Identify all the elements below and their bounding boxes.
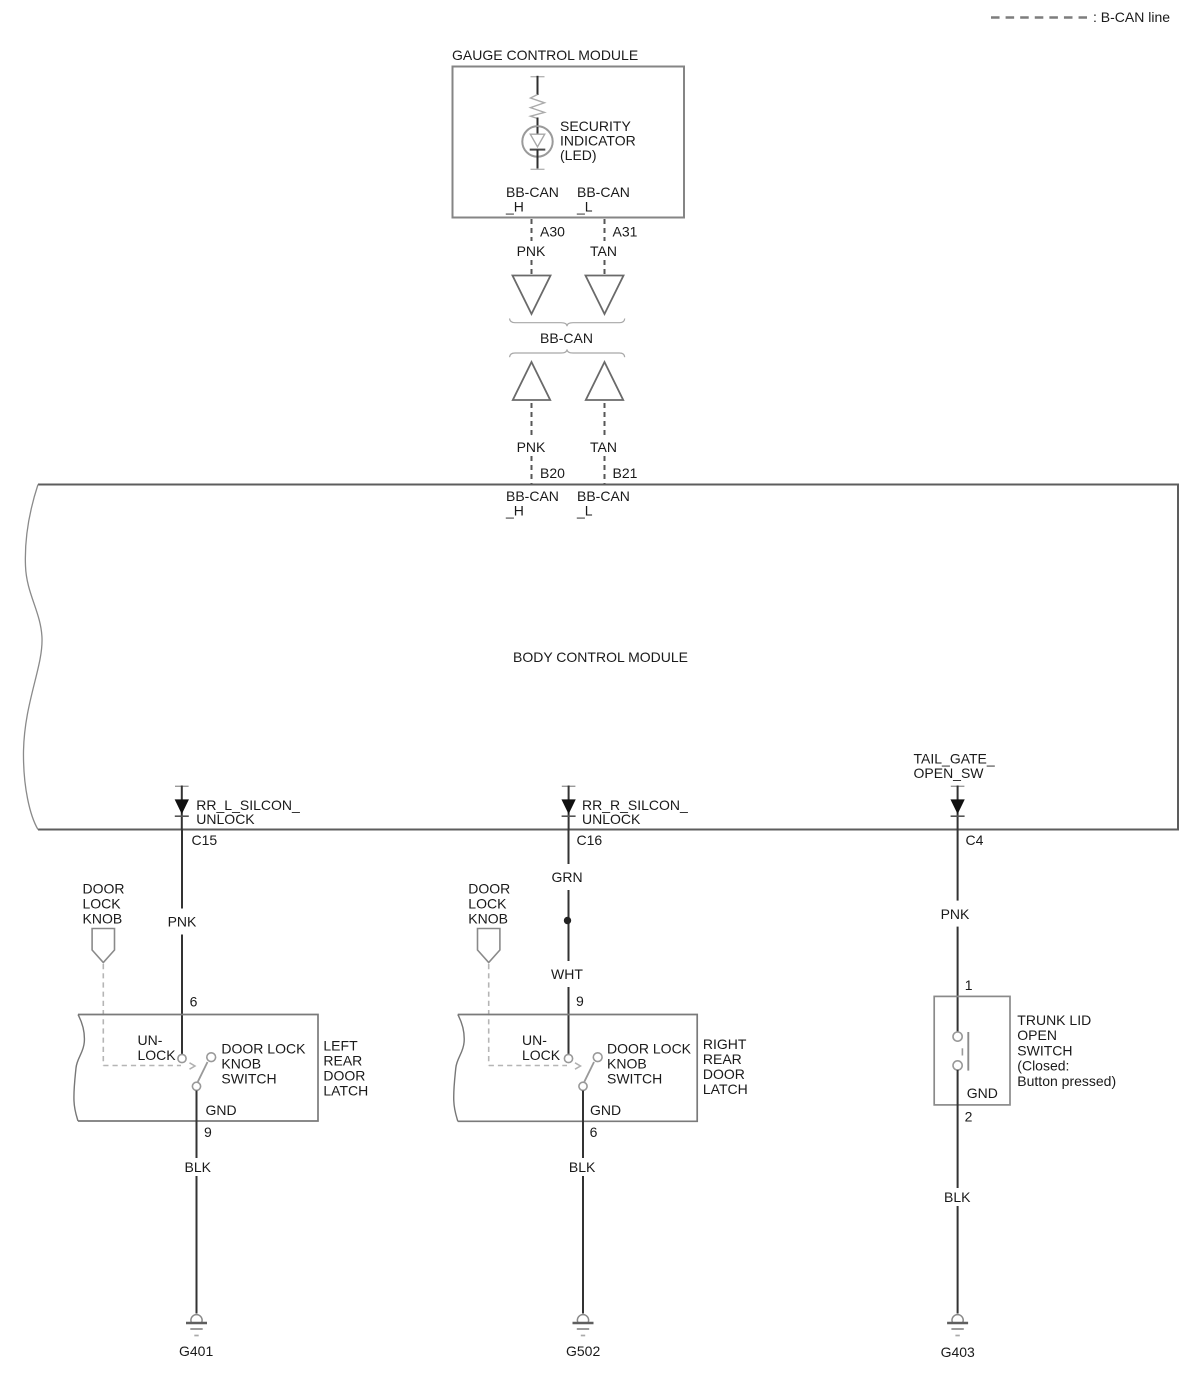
svg-text:PNK: PNK (941, 906, 970, 922)
svg-text:A30: A30 (540, 224, 565, 240)
svg-text:DOOR: DOOR (468, 881, 510, 897)
svg-text:KNOB: KNOB (468, 911, 508, 927)
svg-text:UNLOCK: UNLOCK (196, 811, 255, 827)
svg-text:SWITCH: SWITCH (221, 1070, 276, 1086)
svg-text:REAR: REAR (323, 1052, 362, 1068)
svg-text:KNOB: KNOB (221, 1055, 261, 1071)
svg-text:LOCK: LOCK (138, 1047, 177, 1063)
svg-text:2: 2 (965, 1109, 973, 1125)
svg-text:9: 9 (204, 1124, 212, 1140)
svg-text:_L: _L (576, 503, 593, 519)
svg-text:BLK: BLK (185, 1159, 212, 1175)
svg-text:BLK: BLK (569, 1159, 596, 1175)
svg-text:OPEN: OPEN (1017, 1027, 1057, 1043)
svg-text:SWITCH: SWITCH (1017, 1042, 1072, 1058)
svg-text:G502: G502 (566, 1343, 600, 1359)
svg-text:RIGHT: RIGHT (703, 1036, 747, 1052)
svg-text:REAR: REAR (703, 1051, 742, 1067)
svg-text:LATCH: LATCH (703, 1081, 748, 1097)
svg-text:TAN: TAN (590, 243, 617, 259)
svg-text:BODY CONTROL MODULE: BODY CONTROL MODULE (513, 649, 688, 665)
svg-text:LOCK: LOCK (522, 1047, 561, 1063)
svg-text:(Closed:: (Closed: (1017, 1058, 1069, 1074)
svg-text:LOCK: LOCK (83, 896, 122, 912)
svg-text:KNOB: KNOB (83, 911, 123, 927)
svg-text:UN-: UN- (522, 1032, 547, 1048)
svg-text:DOOR LOCK: DOOR LOCK (221, 1040, 306, 1056)
svg-text:(LED): (LED) (560, 147, 597, 163)
svg-text:6: 6 (190, 994, 198, 1010)
svg-text:DOOR: DOOR (323, 1067, 365, 1083)
svg-text:B20: B20 (540, 465, 565, 481)
svg-text:GND: GND (590, 1102, 621, 1118)
svg-text:OPEN_SW: OPEN_SW (914, 765, 985, 781)
svg-text:B21: B21 (613, 465, 638, 481)
svg-text:INDICATOR: INDICATOR (560, 133, 636, 149)
svg-text:_H: _H (505, 503, 524, 519)
svg-text:: B-CAN line: : B-CAN line (1093, 9, 1170, 25)
svg-text:LEFT: LEFT (323, 1037, 358, 1053)
svg-text:9: 9 (576, 993, 584, 1009)
svg-text:1: 1 (965, 977, 973, 993)
svg-text:_H: _H (505, 199, 524, 215)
svg-text:6: 6 (590, 1124, 598, 1140)
svg-text:BB-CAN: BB-CAN (540, 330, 593, 346)
svg-text:SWITCH: SWITCH (607, 1070, 662, 1086)
svg-text:PNK: PNK (168, 914, 197, 930)
svg-text:DOOR: DOOR (703, 1066, 745, 1082)
svg-text:LOCK: LOCK (468, 896, 507, 912)
svg-text:C15: C15 (192, 832, 218, 848)
svg-text:UNLOCK: UNLOCK (582, 811, 641, 827)
svg-text:GND: GND (206, 1102, 237, 1118)
svg-text:GND: GND (967, 1085, 998, 1101)
svg-text:UN-: UN- (138, 1032, 163, 1048)
svg-text:WHT: WHT (551, 966, 583, 982)
svg-text:GRN: GRN (551, 869, 582, 885)
svg-text:_L: _L (576, 199, 593, 215)
svg-text:G403: G403 (941, 1344, 975, 1360)
svg-text:DOOR LOCK: DOOR LOCK (607, 1040, 692, 1056)
svg-text:Button pressed): Button pressed) (1017, 1073, 1116, 1089)
svg-text:KNOB: KNOB (607, 1055, 647, 1071)
svg-text:C16: C16 (577, 832, 603, 848)
svg-text:SECURITY: SECURITY (560, 118, 631, 134)
svg-text:BLK: BLK (944, 1189, 971, 1205)
svg-text:TRUNK LID: TRUNK LID (1017, 1012, 1091, 1028)
svg-text:G401: G401 (179, 1343, 213, 1359)
svg-text:PNK: PNK (517, 243, 546, 259)
svg-text:LATCH: LATCH (323, 1082, 368, 1098)
svg-text:C4: C4 (966, 832, 984, 848)
svg-text:DOOR: DOOR (83, 881, 125, 897)
svg-text:A31: A31 (613, 224, 638, 240)
svg-text:TAN: TAN (590, 439, 617, 455)
svg-text:PNK: PNK (517, 439, 546, 455)
svg-text:GAUGE CONTROL MODULE: GAUGE CONTROL MODULE (452, 47, 638, 63)
